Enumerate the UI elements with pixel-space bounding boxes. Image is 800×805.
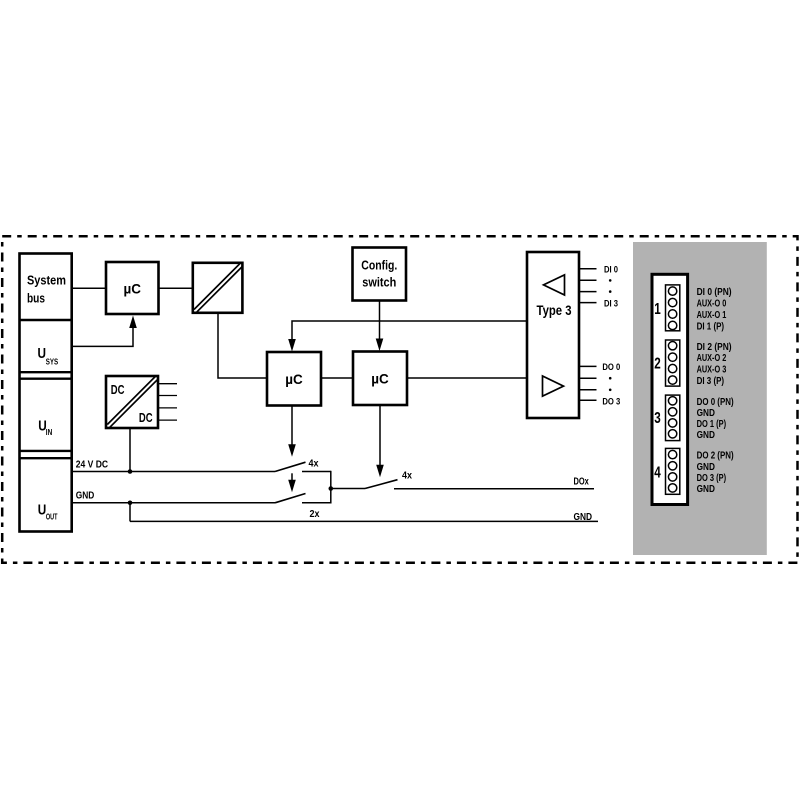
connector group 3 pins	[668, 397, 676, 438]
wire DOx output	[394, 488, 594, 490]
svg-text:4x: 4x	[402, 470, 412, 481]
svg-text:DC: DC	[111, 382, 125, 397]
switch blade 2x (GND)	[275, 494, 306, 503]
svg-text:4x: 4x	[309, 459, 319, 470]
svg-text:bus: bus	[27, 292, 45, 306]
svg-text:AUX-O 3: AUX-O 3	[697, 365, 727, 376]
wire GND drop	[129, 503, 131, 522]
svg-text:GND: GND	[697, 430, 715, 441]
svg-text:GND: GND	[574, 512, 593, 523]
wire Type 3 to uC1 top	[292, 321, 527, 340]
connector body	[652, 274, 688, 504]
svg-text:DI 2 (PN): DI 2 (PN)	[697, 342, 732, 353]
arrowhead uC2 control to DOx switch	[376, 465, 384, 478]
separator USYS / UIN (double line)	[20, 372, 72, 379]
dashed frame border	[2, 236, 797, 563]
arrowhead into uC1 top	[288, 339, 296, 352]
svg-text:DI 0: DI 0	[604, 265, 618, 276]
svg-text:DO 1 (P): DO 1 (P)	[697, 419, 727, 430]
label UOUT	[38, 502, 58, 521]
wire uC2 to Type 3	[407, 377, 527, 379]
wire 24 V DC rail	[72, 471, 275, 473]
DI ellipsis dots	[609, 279, 612, 293]
box Type 3 driver	[527, 252, 579, 418]
separator UIN / UOUT (double line)	[20, 451, 72, 458]
box microcontroller uC2	[353, 352, 407, 406]
label UIN	[38, 418, 52, 437]
wire uC1 bottom control arrow	[291, 406, 293, 446]
svg-text:IN: IN	[46, 428, 53, 437]
svg-text:DO 3 (P): DO 3 (P)	[697, 473, 727, 484]
box microcontroller uC1	[267, 352, 321, 406]
connector group 1 frame	[666, 285, 680, 331]
svg-text:System: System	[27, 274, 66, 288]
DO ellipsis dots	[609, 377, 612, 391]
wire GND bottom rail	[130, 520, 598, 522]
arrowhead uC1 control to 4x switch	[288, 444, 296, 457]
input buffer triangle (left-pointing)	[544, 275, 565, 295]
svg-text:DI 0 (PN): DI 0 (PN)	[697, 287, 732, 298]
svg-text:DI 3 (P): DI 3 (P)	[697, 376, 725, 387]
separator System bus / USYS	[20, 319, 72, 321]
connector group 2 frame	[666, 340, 680, 386]
arrowhead into uC bottom	[129, 316, 137, 329]
switch blade 4x (DOx)	[365, 480, 398, 489]
DC/DC output taps	[158, 384, 177, 420]
svg-text:DO 3: DO 3	[602, 396, 620, 407]
svg-text:3: 3	[654, 410, 661, 427]
wire junction to DOx switch	[331, 488, 365, 490]
svg-text:DI 3: DI 3	[604, 298, 618, 309]
svg-text:GND: GND	[697, 408, 715, 419]
arrowhead into uC2 top	[376, 339, 384, 352]
connector group 4 pins	[668, 450, 676, 492]
wire joining switch outputs	[330, 471, 332, 504]
wire uC1 to uC2	[321, 377, 353, 379]
svg-text:1: 1	[654, 301, 661, 318]
label USYS	[38, 346, 59, 367]
switch blade 4x (24V)	[275, 462, 306, 471]
output driver triangle (right-pointing)	[543, 376, 564, 396]
switch right terminal 2x (GND)	[302, 502, 331, 504]
svg-text:2: 2	[654, 356, 661, 373]
svg-text:µC: µC	[371, 371, 389, 387]
svg-text:GND: GND	[697, 462, 715, 473]
box System bus / supply column outline	[20, 254, 72, 532]
svg-text:µC: µC	[124, 281, 142, 297]
DO pin stubs	[579, 366, 596, 400]
mini control arrow to 2x switch	[291, 473, 293, 481]
svg-text:SYS: SYS	[46, 358, 59, 367]
wire DC/DC down to 24V rail	[129, 428, 131, 472]
wire isolation down to uC1	[218, 314, 267, 379]
connector group 4 frame	[666, 448, 680, 494]
wire Config switch to uC2 top	[379, 301, 381, 340]
gray connector panel background	[633, 242, 767, 555]
wire System bus to uC	[72, 287, 106, 289]
box Config. switch	[353, 248, 407, 301]
svg-text:DO 0: DO 0	[602, 362, 620, 373]
box microcontroller uC top	[106, 262, 159, 314]
wire GND rail	[72, 502, 275, 504]
svg-text:DO 2 (PN): DO 2 (PN)	[697, 451, 734, 462]
svg-text:DO 0 (PN): DO 0 (PN)	[697, 397, 734, 408]
junction DC/DC on 24V rail	[128, 469, 133, 474]
box galvanic isolation	[193, 263, 243, 313]
svg-text:U: U	[38, 346, 47, 362]
connector group 1 pins	[668, 287, 676, 330]
svg-text:2x: 2x	[310, 509, 320, 520]
wire uC2 bottom control arrow	[379, 405, 381, 466]
junction switch outputs	[329, 486, 334, 491]
wire uC to isolation	[159, 287, 193, 289]
svg-text:OUT: OUT	[46, 513, 58, 522]
svg-text:Type 3: Type 3	[537, 303, 572, 318]
connector group 3 frame	[666, 395, 680, 441]
svg-text:AUX-O 1: AUX-O 1	[697, 310, 727, 321]
svg-text:µC: µC	[285, 371, 303, 387]
wire USYS up into uC bottom	[72, 327, 133, 346]
svg-text:DI 1 (P): DI 1 (P)	[697, 322, 725, 333]
svg-text:DOx: DOx	[574, 477, 590, 488]
svg-text:GND: GND	[697, 484, 715, 495]
svg-text:24 V DC: 24 V DC	[76, 460, 108, 471]
DI pin stubs	[579, 269, 596, 303]
junction GND branch	[128, 501, 133, 506]
svg-text:AUX-O 0: AUX-O 0	[697, 299, 727, 310]
switch right terminal 4x (24V)	[302, 471, 331, 473]
svg-text:Config.: Config.	[361, 258, 397, 273]
svg-text:DC: DC	[139, 410, 153, 425]
connector group 2 pins	[668, 342, 676, 385]
svg-text:GND: GND	[76, 490, 95, 501]
svg-text:switch: switch	[362, 275, 396, 290]
box DC/DC converter	[106, 376, 158, 428]
arrowhead to 2x switch	[288, 480, 296, 493]
label System bus	[27, 274, 66, 306]
svg-text:4: 4	[654, 465, 661, 482]
svg-text:AUX-O 2: AUX-O 2	[697, 353, 727, 364]
